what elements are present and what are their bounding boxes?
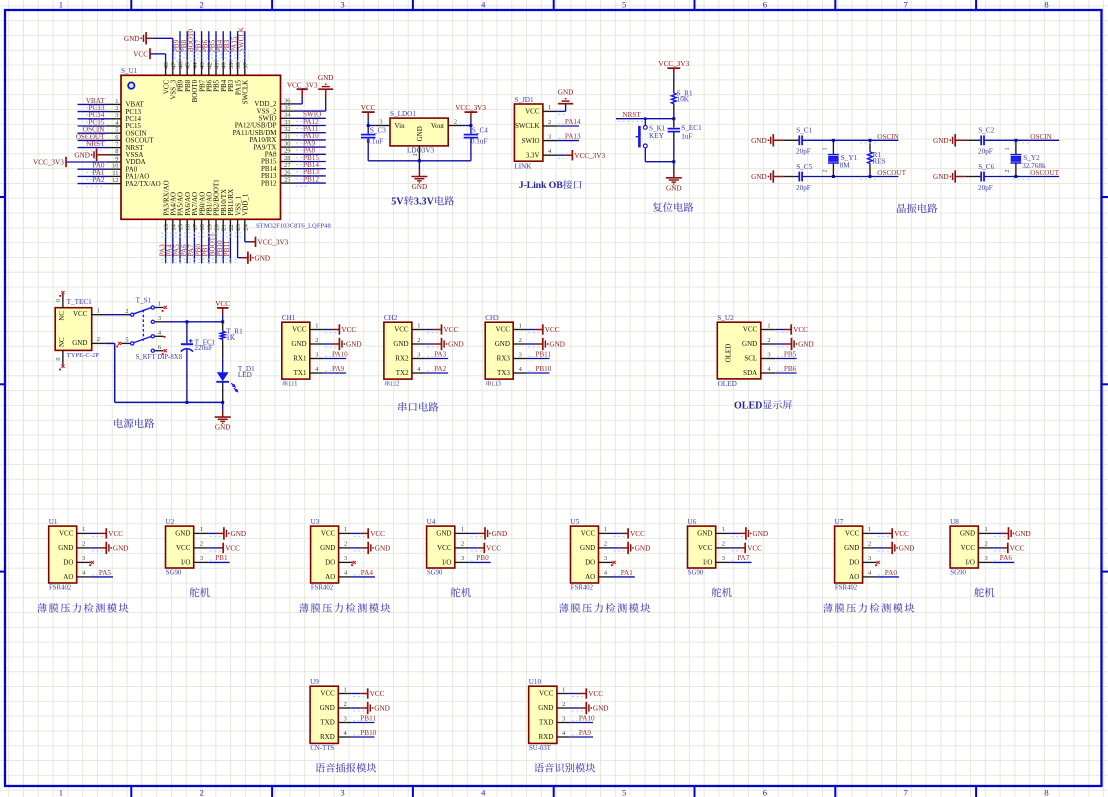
MCU pin 16 with rotated net label PA6 xyxy=(180,192,192,263)
U10 pin 3 TXD net label PA10 xyxy=(539,715,595,727)
svg-text:FSR402: FSR402 xyxy=(311,585,334,592)
svg-text:GND: GND xyxy=(320,704,335,712)
capacitor S 20pF (top) xyxy=(966,135,984,145)
caption power circuit xyxy=(114,418,123,427)
svg-text:TX1: TX1 xyxy=(294,369,307,377)
ground symbol GND (LDO) xyxy=(411,161,427,191)
svg-text:SU-03T: SU-03T xyxy=(529,745,552,752)
CH3 pin 3 RX3 net label PB11 xyxy=(497,351,552,363)
svg-text:20pF: 20pF xyxy=(978,184,993,192)
U1 pin 4 AO net label PA5 xyxy=(63,569,113,581)
svg-text:5: 5 xyxy=(115,127,118,134)
svg-text:20: 20 xyxy=(214,223,221,230)
svg-text:5: 5 xyxy=(622,0,626,10)
U7 pin 4 AO net label PA0 xyxy=(849,569,899,581)
svg-text:2: 2 xyxy=(461,541,464,548)
svg-text:GND: GND xyxy=(375,545,391,553)
svg-text:GND: GND xyxy=(742,340,757,348)
svg-text:1: 1 xyxy=(417,322,420,329)
svg-text:TXD: TXD xyxy=(320,719,334,727)
connector U1 box (FSR402) xyxy=(49,518,77,592)
MCU pin 24 VDD_1 to VCC_3V3 power port xyxy=(242,193,289,247)
svg-text:GND: GND xyxy=(74,152,90,160)
svg-text:4: 4 xyxy=(562,730,566,737)
MCU pin 15 with rotated net label PA5 xyxy=(173,192,185,263)
MCU pin 14 with rotated net label PA4 xyxy=(166,192,178,263)
U7 pin 3 DO no-connect xyxy=(849,555,880,566)
svg-text:0: 0 xyxy=(56,299,62,302)
svg-text:3: 3 xyxy=(344,555,347,562)
svg-text:3: 3 xyxy=(722,555,725,562)
svg-text:GND: GND xyxy=(72,339,87,347)
CH2 pin 1 VCC to VCC power port xyxy=(394,322,458,334)
svg-text:PB10: PB10 xyxy=(535,365,551,373)
svg-text:VCC: VCC xyxy=(743,326,758,334)
svg-text:CH3: CH3 xyxy=(485,314,499,322)
svg-text:14: 14 xyxy=(170,223,177,230)
svg-text:VCC: VCC xyxy=(1010,545,1025,553)
connector U10 box (SU-03T) xyxy=(529,678,557,752)
svg-text:RXD: RXD xyxy=(320,733,335,741)
svg-text:I/O: I/O xyxy=(181,559,190,567)
U2 pin 2 VCC to VCC power port xyxy=(176,541,240,553)
MCU pin 48 VCC to VCC power port xyxy=(133,48,170,94)
svg-text:0.1uF: 0.1uF xyxy=(367,138,384,146)
svg-text:GND: GND xyxy=(58,544,73,552)
svg-text:4: 4 xyxy=(82,570,86,577)
svg-text:3: 3 xyxy=(519,351,522,358)
svg-text:2: 2 xyxy=(562,701,565,708)
wire TEC1 VCC pin 1 to switch xyxy=(91,308,130,315)
svg-text:4: 4 xyxy=(481,0,486,10)
svg-text:NC: NC xyxy=(58,311,66,321)
capacitor S 20pF (top) xyxy=(784,135,802,145)
svg-text:5: 5 xyxy=(125,337,128,344)
svg-text:GND: GND xyxy=(231,530,247,538)
net label OSCOUT (left) xyxy=(860,169,907,179)
svg-text:SG90: SG90 xyxy=(688,570,704,577)
svg-text:PA4: PA4 xyxy=(361,569,374,577)
junction OSCOUT/res xyxy=(869,175,872,178)
svg-text:RX2: RX2 xyxy=(395,355,409,363)
svg-text:2: 2 xyxy=(343,701,346,708)
svg-text:10K: 10K xyxy=(677,95,690,103)
svg-text:OLED: OLED xyxy=(725,344,733,363)
svg-text:220uF: 220uF xyxy=(194,344,212,352)
U4 pin 1 GND to ground symbol xyxy=(436,526,507,539)
MCU pin 20 with rotated net label BOOT1 xyxy=(209,179,221,264)
connector TEC1 TYPE-C-2P box xyxy=(55,298,99,359)
svg-text:VCC: VCC xyxy=(133,50,148,58)
svg-text:RXD: RXD xyxy=(539,733,554,741)
junction node NRST/button xyxy=(644,117,647,120)
svg-text:9: 9 xyxy=(115,155,118,162)
svg-text:DO: DO xyxy=(585,559,595,567)
junction OSCIN/res xyxy=(869,139,872,142)
svg-text:48: 48 xyxy=(163,62,170,69)
svg-text:GND: GND xyxy=(124,35,140,43)
svg-text:4: 4 xyxy=(315,366,319,373)
svg-text:PB1: PB1 xyxy=(215,554,228,562)
U9 pin 2 GND to ground symbol xyxy=(320,701,390,714)
svg-text:PB0: PB0 xyxy=(476,554,489,562)
svg-text:TX3: TX3 xyxy=(497,369,510,377)
wire bottom rail of LDO block xyxy=(368,160,471,162)
svg-text:8: 8 xyxy=(1044,0,1048,10)
svg-text:20pF: 20pF xyxy=(796,148,811,156)
svg-text:6: 6 xyxy=(158,344,161,351)
svg-text:VCC_3V3: VCC_3V3 xyxy=(287,81,318,89)
power port VCC (LDO input) xyxy=(361,104,376,125)
wire node to LDO pin 3 xyxy=(368,118,390,125)
svg-text:2: 2 xyxy=(604,541,607,548)
svg-text:VCC: VCC xyxy=(341,326,356,334)
svg-text:PA9: PA9 xyxy=(579,729,592,737)
svg-text:U2: U2 xyxy=(166,518,175,526)
svg-text:LED: LED xyxy=(238,371,252,379)
MCU pin 43 with rotated net label PB7 xyxy=(194,31,206,92)
svg-text:S_C1: S_C1 xyxy=(796,127,812,135)
svg-text:S_C6: S_C6 xyxy=(978,163,994,171)
compile-mark dashes above MCU top pins xyxy=(174,51,249,61)
svg-text:1: 1 xyxy=(97,308,100,315)
svg-text:VCC: VCC xyxy=(961,544,976,552)
svg-text:0: 0 xyxy=(56,358,62,361)
svg-text:I/O: I/O xyxy=(966,559,975,567)
svg-text:GND: GND xyxy=(318,74,334,82)
svg-text:2: 2 xyxy=(125,308,128,315)
U10 pin 4 RXD net label PA9 xyxy=(539,729,593,741)
svg-text:PB11: PB11 xyxy=(360,715,376,723)
svg-text:PA9: PA9 xyxy=(332,365,345,373)
svg-text:S_U2: S_U2 xyxy=(717,314,734,322)
caption film pressure sensor module (U1) xyxy=(37,603,47,612)
svg-text:OSCIN: OSCIN xyxy=(877,133,899,141)
svg-text:VCC: VCC xyxy=(495,326,510,334)
LDO GND pin 1 xyxy=(412,146,419,161)
svg-text:S_C5: S_C5 xyxy=(796,163,812,171)
U10 pin 2 GND to ground symbol xyxy=(538,701,608,714)
svg-text:7: 7 xyxy=(904,787,909,797)
svg-text:4: 4 xyxy=(344,570,348,577)
svg-text:U1: U1 xyxy=(49,518,58,526)
svg-text:3: 3 xyxy=(82,555,85,562)
MCU pin 13 with rotated net label PA3 xyxy=(158,180,170,263)
caption servo module (U8) xyxy=(974,587,984,597)
svg-text:36: 36 xyxy=(284,97,290,104)
svg-text:4: 4 xyxy=(417,366,421,373)
capacitor C4 0.1uF xyxy=(464,126,489,161)
svg-text:U9: U9 xyxy=(310,678,319,686)
svg-text:VDD_1: VDD_1 xyxy=(242,193,250,216)
junction node VCC/R xyxy=(221,320,224,323)
svg-text:SG90: SG90 xyxy=(950,570,966,577)
svg-text:VCC: VCC xyxy=(394,326,409,334)
svg-text:GND: GND xyxy=(960,530,975,538)
MCU pin 33 PA12/USB/DP with net label PA12 xyxy=(235,118,326,130)
svg-text:32: 32 xyxy=(284,126,290,133)
svg-text:2: 2 xyxy=(1005,170,1011,173)
connector U7 box (FSR402) xyxy=(835,518,863,592)
MCU pin 46 with rotated net label PB9 xyxy=(173,31,185,92)
svg-text:2: 2 xyxy=(396,381,400,388)
svg-text:2: 2 xyxy=(417,337,420,344)
svg-text:S_C2: S_C2 xyxy=(978,127,994,135)
svg-text:VCC: VCC xyxy=(437,544,452,552)
svg-text:1: 1 xyxy=(868,526,871,533)
wire LDO pin 2 Vout xyxy=(448,118,471,125)
CH2 pin 2 GND to ground symbol xyxy=(393,337,463,350)
svg-text:8M: 8M xyxy=(840,162,851,170)
svg-text:2: 2 xyxy=(454,118,457,125)
svg-text:GND: GND xyxy=(320,544,335,552)
svg-text:TYPE-C-2P: TYPE-C-2P xyxy=(67,352,100,359)
U2 pin 3 I/O net label PB1 xyxy=(181,554,230,566)
svg-text:3: 3 xyxy=(158,315,161,322)
svg-text:28: 28 xyxy=(284,155,290,162)
svg-text:3: 3 xyxy=(379,118,382,125)
connector U3 box (FSR402) xyxy=(311,518,339,592)
svg-text:DO: DO xyxy=(325,559,335,567)
U5 pin 1 VCC to VCC power port xyxy=(581,526,645,538)
wire switch pin 3 to VCC rail xyxy=(166,321,223,323)
MCU pin 32 PA11/USB/DM with net label PA11 xyxy=(233,125,326,137)
svg-text:GND: GND xyxy=(113,545,129,553)
svg-text:VCC: VCC xyxy=(321,530,336,538)
svg-text:PA2: PA2 xyxy=(92,176,105,184)
svg-text:U5: U5 xyxy=(571,518,580,526)
svg-text:AO: AO xyxy=(585,573,595,581)
svg-text:PB10: PB10 xyxy=(360,729,376,737)
svg-text:S_KFT DIP-8X8: S_KFT DIP-8X8 xyxy=(136,354,183,361)
svg-text:GND: GND xyxy=(255,254,271,262)
svg-text:STM32F103C8T6_LQFP48: STM32F103C8T6_LQFP48 xyxy=(256,223,331,230)
MCU pin 19 with rotated net label PB1 xyxy=(202,192,214,264)
svg-text:Vout: Vout xyxy=(431,122,444,130)
MCU pin 4 PC15 with net label PC15 xyxy=(78,118,142,130)
connector JD1 J-Link box xyxy=(514,96,543,170)
svg-text:VCC: VCC xyxy=(539,690,554,698)
svg-text:16: 16 xyxy=(185,223,192,230)
svg-text:S_C4: S_C4 xyxy=(472,127,488,135)
svg-text:30: 30 xyxy=(284,141,290,148)
svg-text:34: 34 xyxy=(284,112,291,119)
svg-text:18: 18 xyxy=(199,223,206,230)
svg-text:PA6: PA6 xyxy=(1000,554,1013,562)
MCU pin 22 with rotated net label PB11 xyxy=(223,189,235,264)
svg-text:5V: 5V xyxy=(391,197,404,208)
svg-text:LDO3V3: LDO3V3 xyxy=(407,146,435,154)
wire OSCOUT rail xyxy=(802,176,898,178)
U8 pin 1 GND to ground symbol xyxy=(960,526,1031,539)
connector U2 OLED box xyxy=(717,314,761,388)
MCU pin 11 PA1/AO with net label PA1 xyxy=(78,169,150,181)
svg-text:1: 1 xyxy=(315,322,318,329)
push button K1 KEY xyxy=(636,119,666,162)
svg-text:PB11: PB11 xyxy=(535,351,551,359)
svg-text:7: 7 xyxy=(904,0,909,10)
OLED pin 2 GND to ground symbol xyxy=(742,337,814,350)
svg-text:VCC_3V3: VCC_3V3 xyxy=(258,238,289,246)
junction node NRST/res/cap xyxy=(672,117,675,120)
svg-text:26: 26 xyxy=(284,169,290,176)
svg-text:CN-TTS: CN-TTS xyxy=(310,745,334,752)
svg-text:PA3: PA3 xyxy=(434,351,447,359)
resistor R1 RES (feedback) xyxy=(868,140,886,176)
svg-text:39: 39 xyxy=(228,62,235,69)
U5 pin 4 AO net label PA1 xyxy=(585,569,635,581)
caption reset circuit xyxy=(653,202,662,212)
svg-text:2: 2 xyxy=(97,336,100,343)
MCU pin 30 PA9/TX with net label PA9 xyxy=(253,139,325,151)
svg-text:44: 44 xyxy=(192,62,199,69)
svg-text:PA13: PA13 xyxy=(565,132,581,140)
svg-text:22: 22 xyxy=(228,224,235,231)
svg-text:2: 2 xyxy=(767,337,770,344)
svg-text:3: 3 xyxy=(604,555,607,562)
svg-text:VCC: VCC xyxy=(845,530,860,538)
MCU pin 37 with rotated net label SWCLK xyxy=(238,26,250,104)
capacitor C3 0.1uF xyxy=(361,126,386,161)
svg-text:23: 23 xyxy=(235,223,242,230)
svg-text:U6: U6 xyxy=(688,518,697,526)
svg-text:1: 1 xyxy=(412,153,419,156)
MCU pin 45 with rotated net label PB8 xyxy=(180,31,192,92)
svg-text:GND: GND xyxy=(697,530,712,538)
MCU pin 8 VSSA to ground symbol xyxy=(74,148,143,161)
MCU pin 1 VBAT with net label VBAT xyxy=(78,97,145,109)
U6 pin 3 I/O net label PA7 xyxy=(703,554,752,566)
MCU pin 42 with rotated net label PB6 xyxy=(202,31,214,92)
MCU pin 17 with rotated net label PA7 xyxy=(187,192,199,263)
svg-text:19: 19 xyxy=(206,223,213,230)
svg-text:Vin: Vin xyxy=(395,122,406,130)
svg-text:1: 1 xyxy=(82,526,85,533)
svg-text:GND: GND xyxy=(751,173,767,181)
svg-text:GND: GND xyxy=(558,89,574,97)
svg-text:4: 4 xyxy=(158,329,162,336)
svg-text:4: 4 xyxy=(548,148,552,155)
svg-text:35: 35 xyxy=(284,105,290,112)
svg-text:3.3V: 3.3V xyxy=(526,151,540,159)
svg-text:SWIO: SWIO xyxy=(522,137,540,145)
svg-text:37: 37 xyxy=(242,62,249,69)
MCU pin 35 VSS_2 to ground symbol xyxy=(257,74,334,115)
U5 pin 2 GND to ground symbol xyxy=(580,541,650,554)
switch S1 S_KFT DIP-8X8 xyxy=(116,296,182,361)
CH1 pin 1 VCC to VCC power port xyxy=(292,322,356,334)
svg-text:VCC: VCC xyxy=(698,544,713,552)
crystal S_Y2 xyxy=(1005,140,1046,176)
svg-text:3: 3 xyxy=(315,351,318,358)
capacitor C6 label xyxy=(978,163,995,192)
svg-text:4: 4 xyxy=(767,366,771,373)
U10 pin 1 VCC to VCC power port xyxy=(539,686,603,698)
svg-text:GND: GND xyxy=(844,544,859,552)
connector U2 box (SG90) xyxy=(166,518,194,577)
svg-text:I/O: I/O xyxy=(442,559,451,567)
svg-text:GND: GND xyxy=(448,341,464,349)
CH1 pin 2 GND to ground symbol xyxy=(291,337,361,350)
svg-text:38: 38 xyxy=(235,62,242,69)
svg-text:VCC: VCC xyxy=(176,544,191,552)
MCU pin 2 PC13 with net label PC13 xyxy=(78,104,142,116)
svg-text:PA0: PA0 xyxy=(885,569,898,577)
svg-text:4: 4 xyxy=(481,787,486,797)
svg-text:U4: U4 xyxy=(427,518,436,526)
MCU pin 9 VDDA to VCC_3V3 power port xyxy=(33,155,146,167)
svg-text:GND: GND xyxy=(593,705,609,713)
svg-text:1: 1 xyxy=(343,686,346,693)
MCU pin 21 with rotated net label PB10 xyxy=(216,189,228,263)
svg-text:GND: GND xyxy=(549,341,565,349)
ground symbol GND (crystal top) xyxy=(955,139,966,141)
svg-text:1: 1 xyxy=(984,526,987,533)
svg-text:DO: DO xyxy=(63,559,73,567)
svg-text:1: 1 xyxy=(548,104,551,111)
svg-text:2: 2 xyxy=(823,170,829,173)
power port VCC_3V3 (reset) xyxy=(658,60,689,81)
svg-text:1: 1 xyxy=(294,381,297,388)
svg-text:VCC: VCC xyxy=(588,690,603,698)
connector CH3 box (串口3) xyxy=(485,314,513,388)
svg-text:3: 3 xyxy=(984,555,987,562)
svg-text:GND: GND xyxy=(666,184,682,192)
svg-text:1: 1 xyxy=(158,301,161,308)
svg-text:VCC: VCC xyxy=(525,108,540,116)
wire TEC1 GND pin 2 to bottom rail xyxy=(91,336,222,403)
junction crystal bottom xyxy=(1014,175,1017,178)
svg-text:4: 4 xyxy=(604,570,608,577)
svg-text:S_LDO1: S_LDO1 xyxy=(390,110,416,118)
svg-text:43: 43 xyxy=(199,62,206,69)
svg-text:GND: GND xyxy=(1015,530,1031,538)
svg-text:PA10: PA10 xyxy=(579,715,595,723)
CH2 pin 4 TX2 net label PA2 xyxy=(396,365,448,377)
svg-text:8: 8 xyxy=(1044,787,1048,797)
U3 pin 1 VCC to VCC power port xyxy=(321,526,385,538)
svg-text:33: 33 xyxy=(284,119,290,126)
svg-text:1: 1 xyxy=(1005,148,1011,151)
capacitor T_EC1 220uF polarized xyxy=(181,322,216,403)
svg-text:PA2/TX/AO: PA2/TX/AO xyxy=(126,180,161,188)
junction node LED/rail xyxy=(221,401,224,404)
svg-text:GND: GND xyxy=(412,183,428,191)
connector JD1 pin 3 SWIO net label PA13 xyxy=(522,132,581,144)
svg-text:PB11: PB11 xyxy=(223,240,231,256)
svg-text:VCC: VCC xyxy=(793,326,808,334)
svg-text:1K: 1K xyxy=(226,334,236,342)
capacitor (bottom) xyxy=(784,172,802,182)
U1 pin 2 GND to ground symbol xyxy=(58,541,128,554)
svg-text:SWCLK: SWCLK xyxy=(515,122,540,130)
junction node at LDO Vout xyxy=(469,124,472,127)
svg-text:3: 3 xyxy=(417,351,420,358)
svg-text:0.1uF: 0.1uF xyxy=(471,138,488,146)
svg-text:PA7: PA7 xyxy=(737,554,750,562)
ground symbol GND (crystal top) xyxy=(773,139,784,141)
svg-text:25: 25 xyxy=(284,177,290,184)
connector U4 box (SG90) xyxy=(427,518,455,577)
OLED pin 4 SDA net label PB6 xyxy=(743,365,797,377)
CH2 pin 3 RX2 net label PA3 xyxy=(395,351,448,363)
svg-text:1: 1 xyxy=(604,526,607,533)
svg-text:45: 45 xyxy=(185,62,192,69)
svg-text:2: 2 xyxy=(200,541,203,548)
svg-text:VCC_3V3: VCC_3V3 xyxy=(658,60,689,68)
compile-mark dashes below MCU bottom pins xyxy=(161,233,243,263)
svg-text:17: 17 xyxy=(192,223,199,230)
